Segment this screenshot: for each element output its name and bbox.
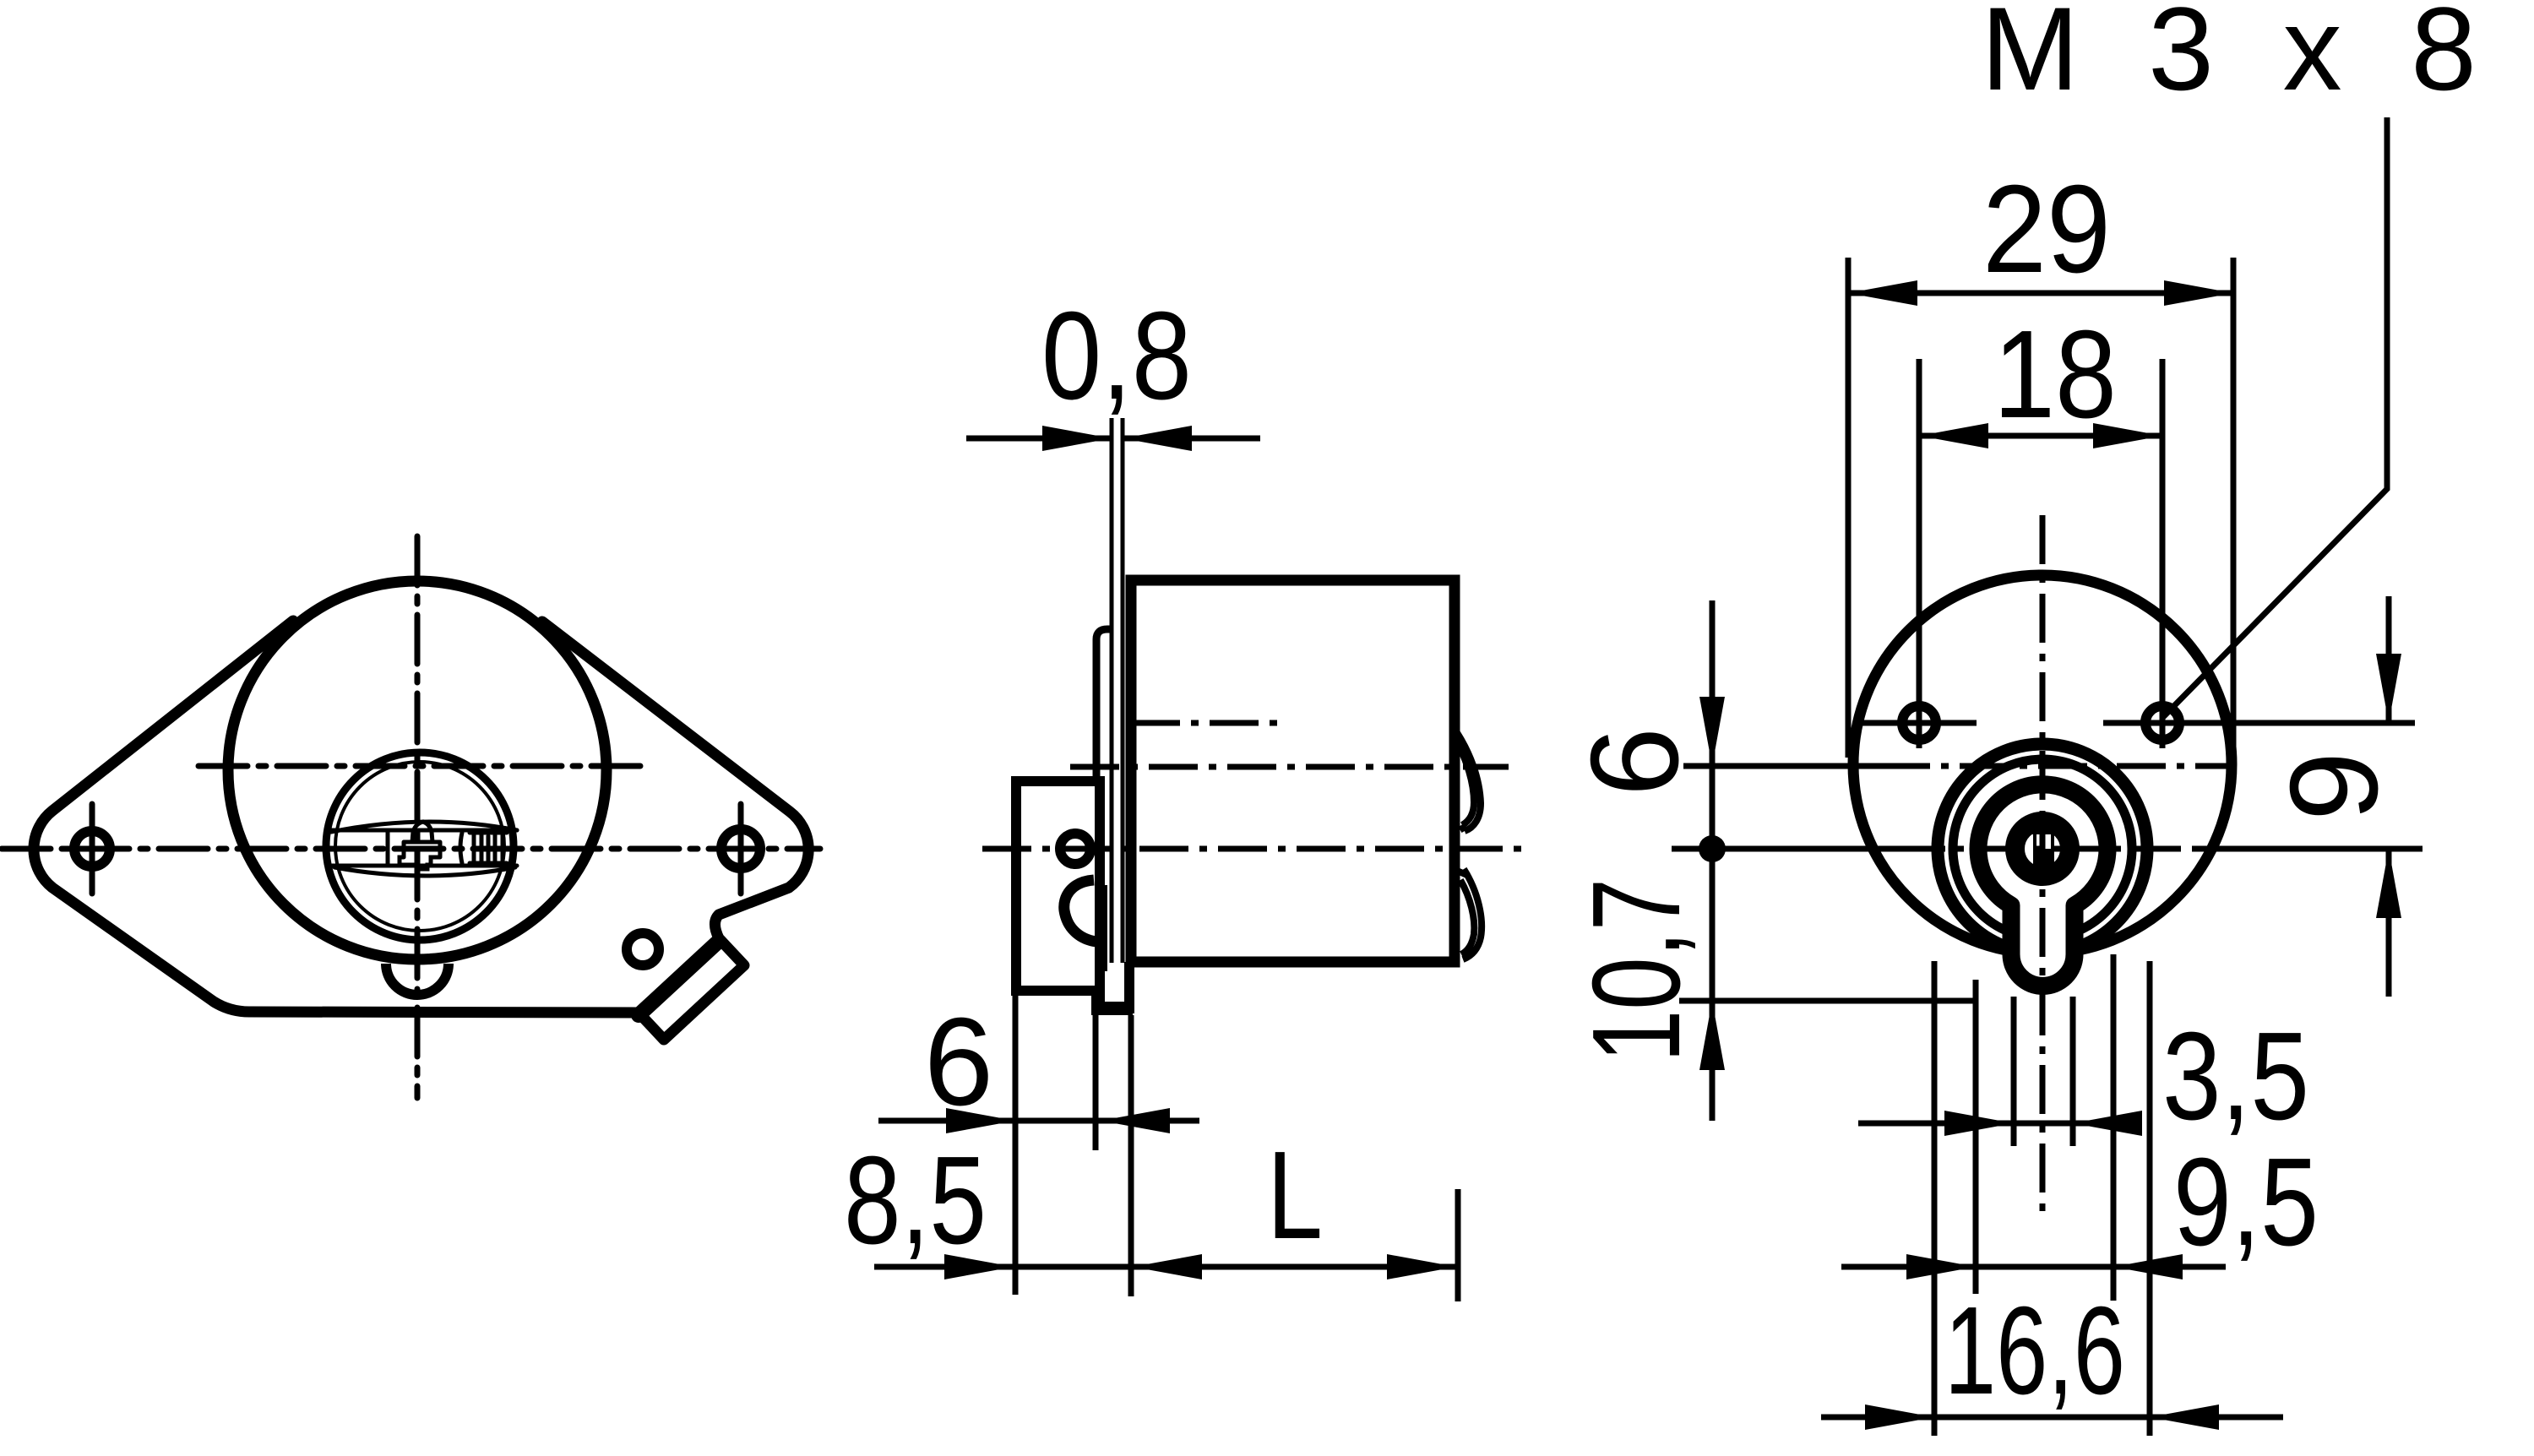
dim 18 line bbox=[1919, 433, 2162, 439]
horizontal centerline main bbox=[2, 846, 820, 852]
cam left edge / extension bbox=[1013, 996, 1019, 1295]
vertical centerline right view bbox=[2040, 515, 2046, 1220]
centerline short bbox=[1131, 720, 1277, 726]
dim 18 arrow right bbox=[2093, 423, 2162, 448]
dim 9 line upper bbox=[2386, 596, 2392, 723]
wafer stack arc bbox=[460, 833, 462, 863]
chain dot bbox=[1699, 835, 1726, 862]
ref line y907 bbox=[1683, 763, 1881, 769]
M3 hole left bbox=[1902, 706, 1936, 740]
key slot cap bbox=[2024, 818, 2061, 834]
dim 9,5 arrow right bbox=[2113, 1254, 2183, 1279]
dim L arrow right bbox=[1387, 1254, 1456, 1279]
pawl hook right bar bbox=[1099, 885, 1107, 971]
body flange lower stub bbox=[1124, 962, 1134, 1013]
key profile dome bbox=[412, 822, 432, 842]
dim 29 ext right bbox=[2231, 258, 2237, 758]
hole ext left bbox=[1917, 359, 1922, 748]
keyhole hub bbox=[2015, 822, 2070, 877]
hole line left bbox=[1862, 720, 1977, 726]
key slot bar bbox=[2033, 831, 2054, 877]
hole ext right bbox=[2160, 359, 2166, 748]
dim 16,6 arrow right bbox=[2150, 1404, 2219, 1430]
ext line x2545 bbox=[2147, 961, 2153, 1436]
keyway band lower lens curve bbox=[334, 867, 515, 876]
upper spring clip outer bbox=[1453, 726, 1481, 831]
dim 18 arrow left bbox=[1919, 423, 1988, 448]
ext line x2502 bbox=[2111, 954, 2117, 1301]
body rectangle bbox=[1131, 580, 1455, 962]
keyhole plug silhouette bbox=[1978, 785, 2107, 986]
dim 6 arrow right bbox=[1101, 1108, 1170, 1133]
dim 29 ext left bbox=[1846, 258, 1852, 758]
chain arrow down bbox=[1699, 697, 1725, 766]
pawl hook outer bbox=[1064, 880, 1104, 942]
svg-text:9: 9 bbox=[2265, 752, 2404, 821]
dim 6 line bbox=[878, 1118, 1199, 1124]
key profile left wall bbox=[386, 831, 390, 866]
svg-text:8,5: 8,5 bbox=[844, 1131, 987, 1270]
dim 3,5 line bbox=[1858, 1121, 2137, 1127]
dim 0,8 arrow left bbox=[1042, 426, 1112, 451]
lock body circle bbox=[228, 581, 606, 959]
svg-text:6: 6 bbox=[1565, 727, 1705, 796]
ext line x2339 bbox=[1973, 980, 1979, 1294]
dim 16,6 line bbox=[1821, 1415, 2283, 1421]
cylinder face inner circle bbox=[335, 762, 504, 931]
lower spring clip outer bbox=[1457, 869, 1482, 959]
dim 8,5 and L line bbox=[874, 1264, 1456, 1270]
washer above block bbox=[1096, 629, 1112, 781]
dim 3,5 arrow right bbox=[2073, 1111, 2142, 1136]
centerline middle bbox=[1070, 764, 1509, 770]
flange outline bbox=[34, 621, 808, 1040]
dim 0,8 arrow right bbox=[1123, 426, 1192, 451]
svg-text:L: L bbox=[1267, 1126, 1323, 1265]
left flange hole bbox=[74, 831, 110, 867]
wafer stack bars bbox=[470, 833, 507, 863]
hole line right long bbox=[2103, 720, 2415, 726]
dim 9 arrow up bbox=[2376, 849, 2401, 918]
keyway band top edge bbox=[331, 829, 517, 833]
M3 leader line bbox=[2162, 117, 2387, 718]
dim 9 line lower bbox=[2386, 849, 2392, 997]
keyway band bottom edge bbox=[331, 864, 517, 868]
keyway band upper lens curve bbox=[331, 822, 517, 832]
svg-text:29: 29 bbox=[1982, 160, 2111, 299]
centerline main axis bbox=[982, 846, 1525, 852]
keyhole ring outer bbox=[1938, 744, 2147, 953]
block hole bbox=[1060, 834, 1090, 864]
M3 hole right bbox=[2145, 706, 2179, 740]
dim 29 arrow left bbox=[1848, 280, 1917, 306]
ref line y1005 left bbox=[1672, 846, 1896, 852]
left hole vertical tick bbox=[90, 804, 95, 894]
svg-text:10,7: 10,7 bbox=[1567, 878, 1706, 1062]
dim 29 line bbox=[1848, 291, 2233, 296]
svg-text:6: 6 bbox=[924, 992, 993, 1132]
ref line y1005 right bbox=[2196, 846, 2423, 852]
flange tab inner band bbox=[639, 943, 716, 1015]
dim 3,5 arrow left bbox=[1944, 1111, 2014, 1136]
dim 8,5 arrow left bbox=[944, 1254, 1014, 1279]
dim 9,5 arrow left bbox=[1906, 1254, 1976, 1279]
svg-text:18: 18 bbox=[1993, 305, 2117, 444]
right hole vertical tick bbox=[738, 804, 744, 894]
shared arrow 8,5/L bbox=[1133, 1254, 1202, 1279]
dim 6 arrow left bbox=[946, 1108, 1015, 1133]
vertical centerline bbox=[415, 536, 421, 1098]
chain dim line left bbox=[1710, 600, 1716, 1121]
panel rear line bbox=[1121, 418, 1125, 963]
chain arrow up bbox=[1699, 1001, 1725, 1070]
svg-text:3,5: 3,5 bbox=[2162, 1007, 2309, 1146]
key profile body bbox=[400, 842, 440, 869]
ext line x2384 bbox=[2011, 997, 2017, 1146]
front block bbox=[1016, 781, 1100, 991]
horizontal centerline upper bbox=[198, 763, 642, 769]
step piece bbox=[1091, 991, 1133, 1015]
dim 0,8 line right bbox=[1123, 436, 1260, 442]
svg-text:16,6: 16,6 bbox=[1944, 1281, 2125, 1421]
ext line x2290 bbox=[1932, 961, 1938, 1436]
extension line under step bbox=[1128, 1015, 1134, 1296]
ref line y1005 dashdot bbox=[1896, 846, 2196, 852]
right flange hole bbox=[721, 829, 760, 868]
ref line y1185 bbox=[1679, 998, 1978, 1004]
ext line x2454 bbox=[2070, 997, 2076, 1146]
cylinder face outer circle bbox=[326, 752, 514, 940]
svg-text:0,8: 0,8 bbox=[1041, 286, 1192, 426]
dim 9 arrow down bbox=[2376, 654, 2401, 723]
bottom semicircle notch bbox=[386, 964, 449, 995]
keyhole ring inner thin bbox=[1953, 759, 2132, 938]
svg-text:9,5: 9,5 bbox=[2173, 1133, 2319, 1272]
key slot notch bbox=[2036, 834, 2051, 849]
dim 16,6 arrow left bbox=[1865, 1404, 1934, 1430]
L extension line bbox=[1455, 1189, 1461, 1301]
ref line y907 dashdot bbox=[1881, 763, 2237, 769]
dim 29 arrow right bbox=[2164, 280, 2233, 306]
body circle rear bbox=[1853, 575, 2232, 953]
cam right edge bbox=[1093, 1002, 1099, 1150]
small lower hole bbox=[627, 933, 659, 965]
dim 9,5 line bbox=[1841, 1264, 2226, 1270]
panel front line bbox=[1110, 418, 1114, 963]
dim 0,8 line left bbox=[966, 436, 1112, 442]
